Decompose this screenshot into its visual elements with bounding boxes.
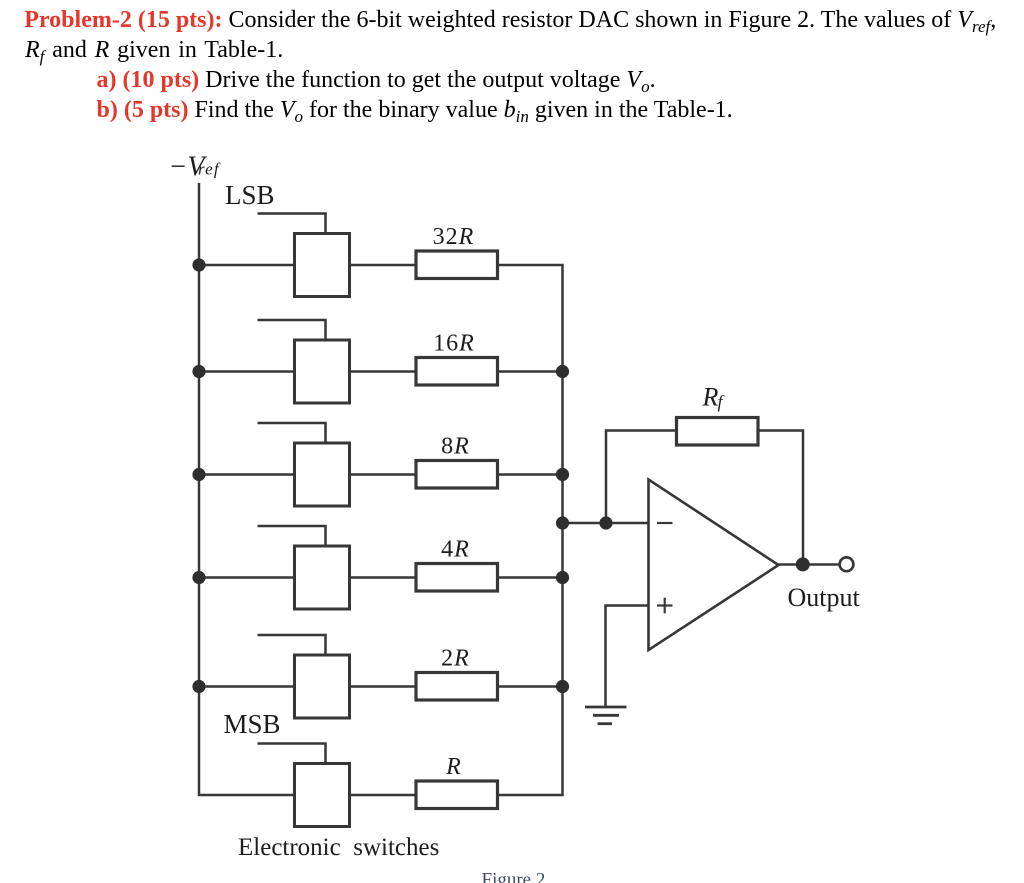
svg-text:4R: 4R: [441, 537, 470, 563]
svg-text:Electronic switches: Electronic switches: [238, 834, 439, 861]
svg-text:ref: ref: [198, 160, 221, 179]
svg-text:Figure 2: Figure 2: [482, 870, 546, 883]
svg-text:R: R: [702, 383, 719, 412]
svg-text:16R: 16R: [433, 331, 475, 357]
svg-text:8R: 8R: [441, 434, 470, 460]
svg-text:LSB: LSB: [225, 180, 275, 210]
svg-text:Output: Output: [788, 583, 861, 612]
svg-text:MSB: MSB: [224, 709, 281, 739]
svg-text:f: f: [718, 392, 726, 412]
svg-text:32R: 32R: [433, 224, 475, 250]
svg-text:2R: 2R: [441, 646, 470, 672]
svg-text:R: R: [445, 754, 461, 780]
